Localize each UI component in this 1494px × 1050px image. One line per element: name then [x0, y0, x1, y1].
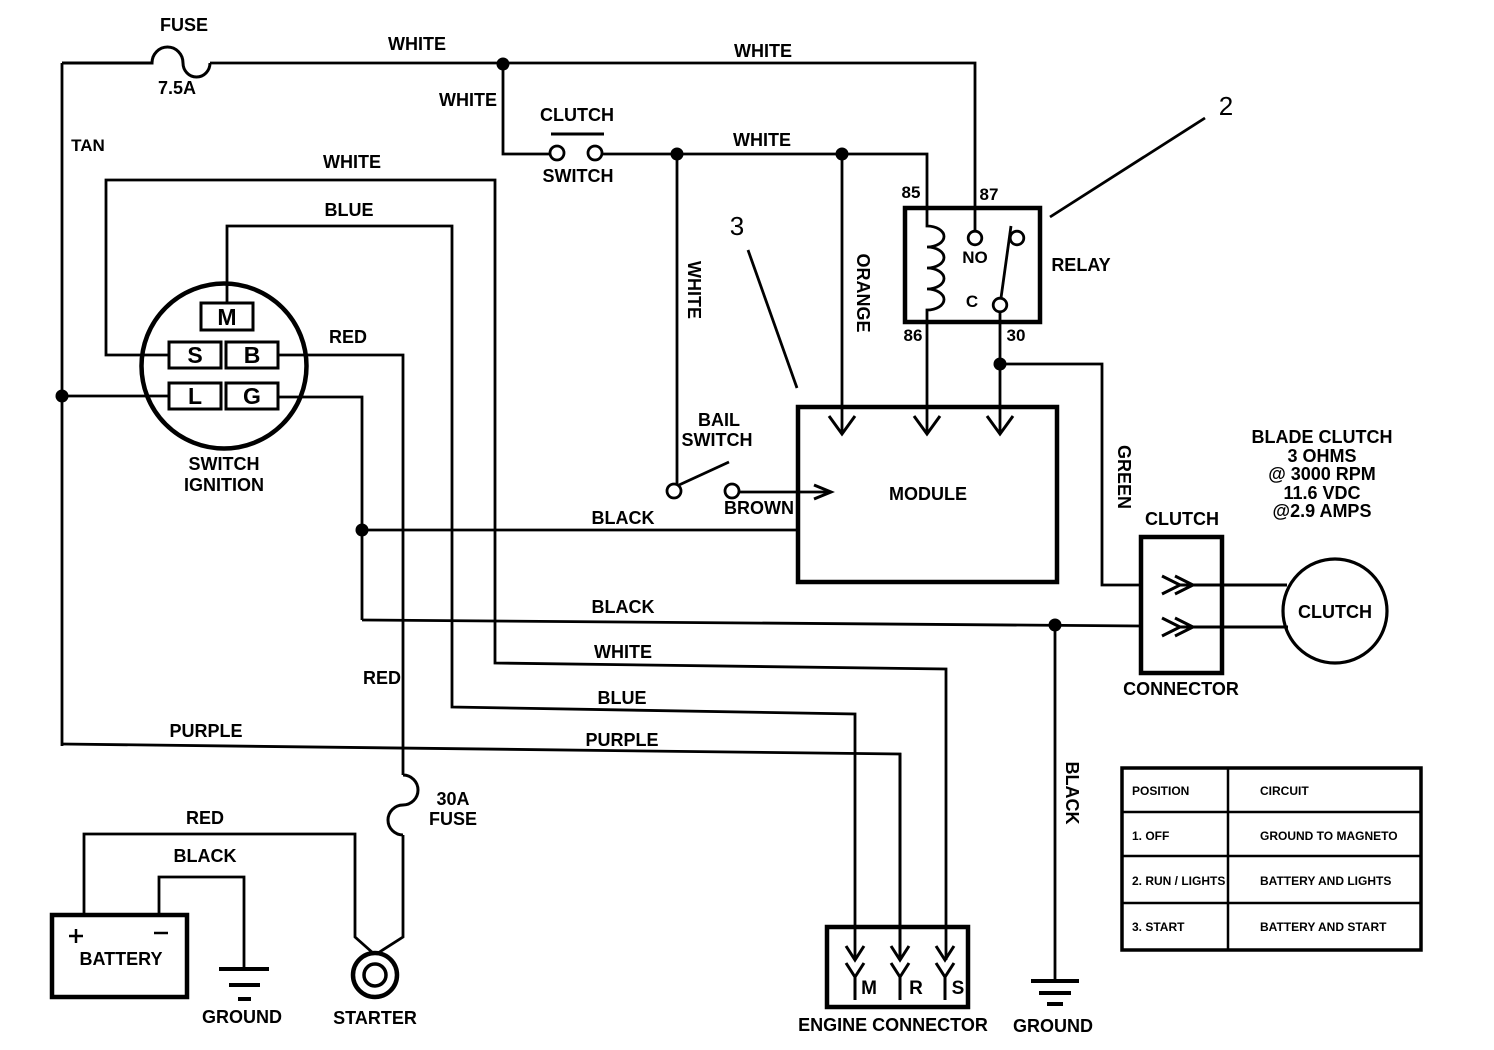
- terminal G box: [226, 383, 278, 409]
- node junction dot top: [497, 58, 510, 71]
- wire GREEN: [1000, 364, 1141, 585]
- wire BLACK to ground: [1054, 625, 1057, 980]
- svg-text:PURPLE: PURPLE: [169, 721, 242, 741]
- svg-text:SWITCH: SWITCH: [189, 454, 260, 474]
- wire L terminal to TAN: [62, 395, 169, 398]
- svg-text:WHITE: WHITE: [733, 130, 791, 150]
- wire WHITE down to clutch switch: [503, 64, 549, 154]
- relay coil: [927, 208, 944, 322]
- svg-text:RED: RED: [186, 808, 224, 828]
- wire relay 86 to module: [926, 322, 929, 433]
- connector lower pin chevrons: [1162, 618, 1288, 636]
- pointer line 2: [1050, 118, 1205, 217]
- clutch motor circle: [1283, 559, 1387, 663]
- engine pin M arrow: [846, 946, 864, 1000]
- svg-text:MODULE: MODULE: [889, 484, 967, 504]
- relay arm pivot circle: [1010, 231, 1024, 245]
- svg-text:POSITION: POSITION: [1132, 784, 1189, 798]
- svg-text:S: S: [952, 978, 965, 999]
- battery plus symbol: [69, 929, 83, 943]
- node junction dot bail: [671, 148, 684, 161]
- svg-text:FUSE: FUSE: [429, 809, 477, 829]
- wire WHITE from S terminal: [106, 180, 946, 960]
- node junction dot orange: [836, 148, 849, 161]
- svg-text:G: G: [243, 383, 261, 409]
- bail switch S2: [667, 462, 739, 498]
- relay contact C circle: [993, 298, 1007, 312]
- svg-text:BATTERY AND LIGHTS: BATTERY AND LIGHTS: [1260, 874, 1391, 888]
- svg-text:PURPLE: PURPLE: [585, 730, 658, 750]
- svg-text:86: 86: [904, 326, 923, 345]
- fuse F1 7.5A: [62, 47, 210, 77]
- svg-text:ENGINE CONNECTOR: ENGINE CONNECTOR: [798, 1015, 988, 1035]
- svg-text:30A: 30A: [436, 789, 469, 809]
- wire BLUE: [227, 226, 855, 960]
- svg-text:2. RUN / LIGHTS: 2. RUN / LIGHTS: [1132, 874, 1225, 888]
- svg-text:1. OFF: 1. OFF: [1132, 829, 1169, 843]
- svg-text:GROUND: GROUND: [1013, 1016, 1093, 1036]
- svg-text:CLUTCH: CLUTCH: [1145, 509, 1219, 529]
- svg-text:CIRCUIT: CIRCUIT: [1260, 784, 1309, 798]
- svg-text:L: L: [188, 383, 202, 409]
- node junction dot G: [356, 524, 369, 537]
- svg-text:BLACK: BLACK: [174, 846, 237, 866]
- module U1 box: [798, 407, 1057, 582]
- wire PURPLE: [62, 744, 900, 960]
- engine connector J1 box: [827, 927, 968, 1007]
- svg-text:IGNITION: IGNITION: [184, 475, 264, 495]
- svg-text:SWITCH: SWITCH: [543, 166, 614, 186]
- svg-text:C: C: [966, 292, 978, 311]
- svg-text:CLUTCH: CLUTCH: [1298, 602, 1372, 622]
- wire RED below fuse: [378, 835, 403, 953]
- wire RED battery to starter: [84, 834, 373, 953]
- svg-text:S: S: [187, 342, 202, 368]
- svg-text:WHITE: WHITE: [323, 152, 381, 172]
- wire BLACK1 to module: [362, 529, 798, 532]
- engine pin S arrow: [936, 946, 954, 1000]
- svg-text:SWITCH: SWITCH: [682, 430, 753, 450]
- svg-text:ORANGE: ORANGE: [853, 253, 873, 332]
- svg-text:WHITE: WHITE: [594, 642, 652, 662]
- svg-text:RELAY: RELAY: [1051, 255, 1110, 275]
- svg-text:TAN: TAN: [71, 136, 105, 155]
- svg-text:30: 30: [1007, 326, 1026, 345]
- wire G terminal down: [278, 397, 362, 620]
- wire ORANGE to module: [841, 154, 844, 433]
- wire TAN vertical: [61, 63, 64, 746]
- svg-text:BLADE CLUTCH: BLADE CLUTCH: [1252, 427, 1393, 447]
- ground symbol battery: [219, 969, 269, 999]
- wire RED from B terminal: [278, 355, 403, 775]
- clutch connector J2 box: [1141, 537, 1222, 673]
- terminal S box: [169, 342, 221, 368]
- wire BLACK battery to ground: [159, 877, 244, 968]
- svg-text:BLACK: BLACK: [592, 597, 655, 617]
- svg-text:87: 87: [980, 185, 999, 204]
- svg-text:BATTERY AND START: BATTERY AND START: [1260, 920, 1387, 934]
- ignition switch body circle: [142, 284, 307, 449]
- clutch switch S1: [550, 134, 604, 160]
- svg-text:WHITE: WHITE: [684, 261, 704, 319]
- svg-text:@2.9 AMPS: @2.9 AMPS: [1273, 501, 1372, 521]
- svg-text:NO: NO: [962, 248, 988, 267]
- svg-text:RED: RED: [329, 327, 367, 347]
- svg-text:R: R: [909, 978, 923, 999]
- wire BROWN arrow to module: [739, 491, 829, 494]
- svg-text:FUSE: FUSE: [160, 15, 208, 35]
- relay arm: [1001, 226, 1011, 298]
- svg-text:STARTER: STARTER: [333, 1008, 417, 1028]
- terminal L box: [169, 383, 221, 409]
- svg-text:BATTERY: BATTERY: [80, 949, 163, 969]
- battery minus symbol: [154, 932, 168, 935]
- engine pin R arrow: [891, 753, 909, 1000]
- svg-text:CONNECTOR: CONNECTOR: [1123, 679, 1239, 699]
- svg-text:GROUND: GROUND: [202, 1007, 282, 1027]
- svg-text:M: M: [217, 304, 236, 330]
- svg-text:WHITE: WHITE: [439, 90, 497, 110]
- wire WHITE top: [210, 63, 975, 231]
- svg-text:2: 2: [1219, 91, 1233, 121]
- svg-text:M: M: [861, 978, 877, 999]
- svg-text:@ 3000 RPM: @ 3000 RPM: [1268, 464, 1376, 484]
- svg-text:BLACK: BLACK: [592, 508, 655, 528]
- terminal B box: [226, 342, 278, 368]
- connector upper pin chevrons: [1162, 576, 1287, 594]
- wire BLACK2 to clutch connector: [362, 620, 1141, 626]
- svg-text:GREEN: GREEN: [1114, 445, 1134, 509]
- wire relay 30 to module: [999, 312, 1002, 433]
- node junction dot 30: [994, 358, 1007, 371]
- svg-text:BLUE: BLUE: [598, 688, 647, 708]
- svg-text:3: 3: [730, 211, 744, 241]
- note BLADE CLUTCH spec: [1252, 427, 1393, 521]
- wire WHITE mid to relay pin 85: [602, 154, 927, 209]
- svg-text:3. START: 3. START: [1132, 920, 1185, 934]
- pointer line 3: [748, 250, 797, 388]
- svg-text:B: B: [244, 342, 261, 368]
- terminal M box: [201, 303, 253, 330]
- svg-text:BLUE: BLUE: [325, 200, 374, 220]
- node junction dot L: [56, 390, 69, 403]
- battery B1 box: [52, 915, 187, 997]
- svg-text:3 OHMS: 3 OHMS: [1287, 446, 1356, 466]
- svg-text:GROUND TO MAGNETO: GROUND TO MAGNETO: [1260, 829, 1398, 843]
- svg-text:BLACK: BLACK: [1062, 762, 1082, 825]
- relay U2 box: [905, 208, 1040, 322]
- ground symbol right: [1031, 981, 1079, 1004]
- svg-text:BAIL: BAIL: [698, 410, 740, 430]
- wire WHITE to bail switch: [676, 154, 679, 484]
- svg-text:11.6 VDC: 11.6 VDC: [1283, 483, 1360, 503]
- relay contact NO (pin 87): [968, 231, 982, 245]
- node junction dot black ground: [1049, 619, 1062, 632]
- svg-text:WHITE: WHITE: [388, 34, 446, 54]
- svg-text:85: 85: [902, 183, 921, 202]
- fuse F2 30A: [388, 775, 418, 835]
- svg-text:RED: RED: [363, 668, 401, 688]
- svg-text:CLUTCH: CLUTCH: [540, 105, 614, 125]
- table position/circuit: [1122, 768, 1421, 950]
- svg-text:7.5A: 7.5A: [158, 78, 196, 98]
- starter M1: [353, 953, 397, 997]
- svg-text:BROWN: BROWN: [724, 498, 794, 518]
- svg-text:WHITE: WHITE: [734, 41, 792, 61]
